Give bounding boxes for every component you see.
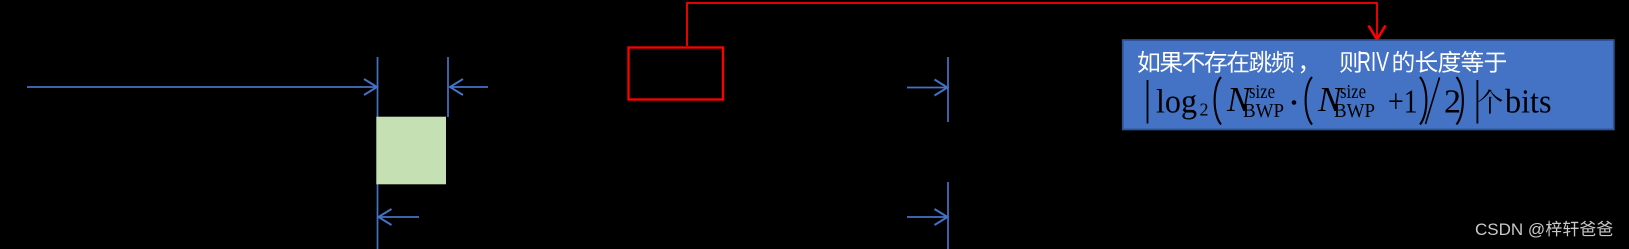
boundary line mid (x=948) upper segment <box>947 57 949 122</box>
RB square (green) <box>376 117 446 185</box>
dimension arrow, pointing right at x=948 top <box>907 80 948 96</box>
watermark name 梓轩爸爸 <box>1546 221 1613 237</box>
svg-text:2: 2 <box>1444 84 1461 121</box>
svg-text:+1: +1 <box>1388 84 1418 121</box>
boundary line right of RB (x=448) <box>447 57 449 117</box>
callout box (blue) <box>1123 40 1614 129</box>
svg-text:log: log <box>1156 84 1197 121</box>
svg-text:BWP: BWP <box>1243 100 1284 122</box>
dimension arrow bottom-left, pointing left <box>379 209 420 225</box>
formula ceiling bar right <box>1477 80 1479 124</box>
callout text line1 part2 <box>1394 51 1506 73</box>
formula big paren 3 (close) <box>1420 77 1426 125</box>
formula dot operator <box>1292 100 1297 105</box>
formula big paren 1 <box>1215 77 1221 125</box>
dimension arrow, pointing left at x=450 <box>450 79 488 95</box>
callout text line1 comma <box>1301 65 1306 73</box>
callout text line1 则 <box>1340 51 1361 73</box>
svg-text:2: 2 <box>1200 100 1209 120</box>
dimension arrow long left, pointing right <box>27 79 377 95</box>
dimension arrow bottom-right, pointing right <box>907 209 948 225</box>
callout text line1 part1 <box>1138 51 1294 73</box>
formula big paren 4 (close) <box>1457 77 1463 125</box>
red elbow connector arrow <box>687 3 1386 46</box>
formula slash /2 <box>1426 78 1440 125</box>
formula big paren 2 <box>1306 77 1312 125</box>
formula 个 <box>1478 89 1503 113</box>
red highlight rectangle <box>629 48 724 100</box>
svg-text:BWP: BWP <box>1334 100 1375 122</box>
svg-text:CSDN @: CSDN @ <box>1475 220 1545 239</box>
svg-text:bits: bits <box>1505 84 1552 121</box>
boundary line mid (x=948) lower segment <box>947 182 949 249</box>
svg-text:RIV: RIV <box>1357 46 1389 77</box>
formula ceiling bar left <box>1147 80 1149 124</box>
boundary line left (x=377) <box>377 57 379 249</box>
